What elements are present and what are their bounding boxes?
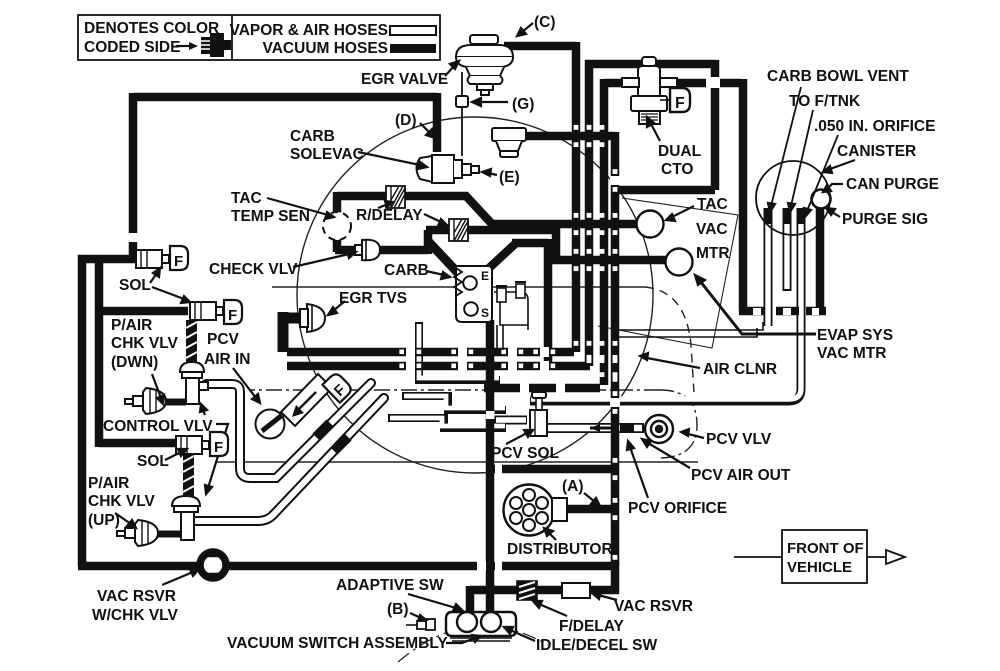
SOL 1 fitting (136, 250, 169, 268)
wire: main carb vertical (486, 320, 495, 612)
wire: dual cto right loop vertical (711, 60, 720, 190)
(G) fitting (456, 96, 468, 107)
F tag pcv air in (322, 372, 353, 403)
svg-text:F: F (174, 253, 183, 270)
wire: y83 line left of cto (604, 79, 630, 88)
svg-text:DENOTES COLOR: DENOTES COLOR (84, 20, 219, 37)
SOL 2 fitting (190, 302, 223, 320)
svg-text:(DWN): (DWN) (111, 354, 158, 371)
wire: distributor link (565, 505, 613, 514)
wire: bottom main line (78, 562, 613, 571)
legend vapor swatch (390, 26, 436, 35)
wire: top frame horizontal (133, 93, 437, 102)
arrow carb (426, 271, 444, 275)
arrow pcv vlv (688, 434, 704, 438)
F/DELAY component (517, 581, 537, 600)
wire: r/delay1 top line (337, 192, 388, 201)
wire: egr c line (504, 42, 576, 51)
p/air chk vlv up dome (117, 520, 158, 546)
svg-text:CHECK VLV: CHECK VLV (209, 261, 298, 278)
wire: purge foot segment 3 (806, 307, 826, 316)
svg-text:(B): (B) (387, 601, 409, 618)
svg-text:PURGE SIG: PURGE SIG (842, 211, 928, 228)
legend connector icon (201, 33, 231, 57)
svg-text:FRONT OF: FRONT OF (787, 540, 864, 557)
connector gap left frame (128, 233, 138, 242)
carburetor body (454, 266, 492, 322)
svg-text:F: F (228, 307, 237, 324)
svg-text:VAC MTR: VAC MTR (817, 345, 886, 362)
wire: second left vertical (95, 259, 104, 447)
svg-text:CARB: CARB (290, 128, 335, 145)
arrow r/delay 2 (424, 214, 441, 222)
svg-text:(G): (G) (512, 96, 534, 113)
control valve upper (180, 362, 208, 404)
F tag sol1 (170, 246, 188, 270)
carb solevac (417, 155, 480, 183)
arrow pcv orifice (630, 447, 648, 498)
wire: (D) drop to solevac (433, 93, 442, 152)
arrow sol upper b (152, 287, 184, 299)
svg-text:CARB: CARB (384, 262, 429, 279)
svg-text:CANISTER: CANISTER (837, 143, 916, 160)
svg-text:PCV: PCV (207, 331, 240, 348)
connector gap bottom line at carb tee (477, 561, 486, 571)
svg-text:VACUUM HOSES: VACUUM HOSES (263, 40, 388, 57)
svg-text:(A): (A) (562, 478, 584, 495)
SOL 3 fitting (176, 436, 209, 454)
svg-text:P/AIR: P/AIR (111, 317, 152, 334)
wire: temp sen drop (333, 192, 342, 215)
svg-text:CHK VLV: CHK VLV (111, 335, 179, 352)
PCV SOL fitting (530, 392, 547, 436)
wire: check valve out (378, 230, 428, 254)
carb top fitting (492, 128, 526, 157)
svg-text:DUAL: DUAL (658, 143, 701, 160)
wire: tvs bar y366 (287, 362, 590, 371)
arrow (A) (584, 493, 595, 502)
svg-text:E: E (481, 269, 489, 283)
EGR valve (456, 35, 513, 95)
svg-text:PCV AIR OUT: PCV AIR OUT (691, 467, 791, 484)
svg-text:S: S (481, 306, 489, 320)
arrow distributor (549, 533, 556, 540)
svg-text:CONTROL VLV: CONTROL VLV (103, 418, 213, 435)
svg-text:MTR: MTR (696, 245, 730, 262)
wire: purge riser x748 (739, 79, 748, 311)
hose: canister orifice tube down and left (530, 208, 801, 401)
wire: carb V left diagonal (427, 240, 458, 273)
hose: diagonal vapor tube B (196, 398, 384, 521)
svg-text:CODED SIDE: CODED SIDE (84, 39, 180, 56)
svg-text:CAN PURGE: CAN PURGE (846, 176, 939, 193)
wire: egr tvs corner (279, 312, 303, 352)
arrow sol upper a (150, 273, 157, 283)
svg-text:PCV ORIFICE: PCV ORIFICE (628, 500, 727, 517)
arrow (G) (478, 101, 508, 103)
tilted bracket rectangle (598, 198, 738, 348)
arrow carb bowl vent (771, 87, 801, 206)
svg-text:TO F/TNK: TO F/TNK (789, 93, 861, 110)
wire: bundle2 top corner (585, 60, 716, 69)
svg-text:W/CHK VLV: W/CHK VLV (92, 607, 178, 624)
DUAL CTO valve (622, 57, 677, 124)
wire: bundle line 4 (611, 132, 620, 565)
vac rsvr w/chk vlv donut (200, 552, 226, 578)
EVAP SYS VAC MTR ball (666, 249, 693, 276)
wire: tvs bar y352 (287, 348, 574, 357)
arrow f/delay (539, 604, 567, 616)
EGR TVS dome (300, 304, 325, 332)
arrow adaptive sw (408, 594, 456, 608)
arrow canister (830, 160, 855, 169)
wire: sol1 header horizontal (78, 255, 136, 264)
svg-text:IDLE/DECEL SW: IDLE/DECEL SW (536, 637, 658, 654)
wire: y83 line right of cto (660, 79, 741, 88)
arrow temp sen (267, 198, 328, 215)
wire: up dome to valve stub (158, 531, 181, 538)
F tag dual cto (670, 88, 690, 112)
hose: canister carb bowl vent tube (764, 208, 773, 326)
wire: purge signal tube (816, 207, 825, 314)
svg-text:VAC: VAC (696, 221, 728, 238)
svg-text:PCV SOL: PCV SOL (491, 445, 559, 462)
svg-text:VEHICLE: VEHICLE (787, 559, 852, 576)
control valve lower (172, 496, 200, 540)
svg-text:ADAPTIVE SW: ADAPTIVE SW (336, 577, 444, 594)
arrow to f/tnk (791, 110, 813, 206)
wire: r/delay1 to tac line (404, 196, 637, 224)
svg-text:DISTRIBUTOR: DISTRIBUTOR (507, 541, 613, 558)
hose: PCV tube right with orifice (546, 424, 644, 432)
svg-text:F/DELAY: F/DELAY (559, 618, 625, 635)
air cleaner circle outline (297, 117, 653, 473)
arrow dual cto (650, 122, 660, 141)
arrow (C) (522, 23, 533, 32)
arrow vac switch assembly (446, 638, 475, 643)
svg-text:TEMP SEN: TEMP SEN (231, 208, 310, 225)
TAC VAC MTR ball (637, 211, 664, 238)
connector sockets on hose bundle (574, 125, 579, 130)
svg-text:TAC: TAC (231, 190, 262, 207)
arrow check vlv (293, 254, 349, 267)
legend box (78, 15, 440, 60)
arrow inside PCV tube (590, 427, 612, 430)
svg-text:VAC RSVR: VAC RSVR (97, 588, 176, 605)
legend text right (230, 22, 388, 57)
arrow (E) (488, 173, 497, 175)
svg-text:CTO: CTO (661, 161, 693, 178)
R/delay 2 (449, 219, 468, 241)
R/delay 1 (386, 186, 405, 208)
arrow (D) (420, 123, 431, 134)
wire: bundle line 1 (572, 42, 581, 352)
PCV valve rings (645, 415, 673, 443)
arrow sol lower (165, 452, 181, 460)
wire: purge foot segment 1 (739, 307, 764, 316)
arrow idle/decel (510, 630, 535, 641)
wire: bundle line 2 (585, 60, 594, 366)
arrow purge sig (832, 212, 840, 217)
canister circle (756, 161, 830, 235)
svg-text:PCV VLV: PCV VLV (706, 431, 772, 448)
wire: sol3 branch (99, 439, 176, 448)
arrow carb solevac (358, 152, 420, 165)
wire: distributor top line (494, 465, 613, 474)
svg-text:SOL: SOL (137, 453, 169, 470)
p/air chk vlv dwn dome (125, 388, 166, 414)
wire: evap thin pair lines (618, 322, 763, 337)
svg-text:(C): (C) (534, 14, 556, 31)
svg-text:R/DELAY: R/DELAY (356, 207, 423, 224)
can purge port (812, 190, 831, 209)
valve cover chain line (250, 389, 660, 391)
svg-text:EGR TVS: EGR TVS (339, 290, 407, 307)
svg-text:(UP): (UP) (88, 512, 120, 529)
arrow orifice leader (807, 135, 838, 211)
arrow air clnr (647, 358, 700, 368)
arrow p/air up (115, 513, 131, 524)
VAC RSVR component (562, 583, 590, 598)
arrow p/air dwn (152, 374, 161, 398)
distributor (504, 485, 568, 536)
wire: purge foot segment 2 (776, 307, 799, 316)
svg-text:P/AIR: P/AIR (88, 475, 129, 492)
hatched hose lower (183, 454, 194, 496)
wire: dual cto bottom link (611, 186, 715, 195)
wire: temp sen lower drop (335, 238, 358, 252)
hose: staircase tube 2 (402, 396, 506, 410)
wire: (G) thin line (461, 72, 463, 156)
arrow egr valve (445, 65, 455, 76)
F tag sol3 (210, 432, 228, 456)
wire: carb fitting line y136 (524, 132, 615, 141)
arrow pcv sol (506, 433, 527, 444)
svg-text:AIR IN: AIR IN (204, 351, 251, 368)
legend vacuum swatch (390, 44, 436, 53)
vacuum switch assembly (406, 612, 516, 641)
svg-text:F: F (214, 439, 223, 456)
hatched hose upper (186, 320, 197, 364)
wire: vac rsvr f/delay line (470, 586, 619, 595)
wire: dwn dome to valve stub (166, 399, 186, 406)
connector gaps on tvs bars (406, 347, 415, 357)
wire: bottom right corner down (611, 561, 620, 594)
arrow pcv air out (648, 443, 690, 468)
hose: staircase tube 1 (419, 322, 500, 380)
wire: bar y388 (484, 384, 600, 393)
PCV air in tube (281, 374, 332, 426)
connector squares canister feet (753, 308, 761, 315)
arrow vac rsvr2 (598, 595, 617, 600)
wire: sol2 branch (99, 307, 188, 316)
legend text left (84, 20, 219, 56)
svg-text:(D): (D) (395, 112, 417, 129)
front of vehicle box (734, 530, 905, 583)
leader control vlv (208, 424, 228, 488)
TAC TEMP SEN dashed circle (323, 212, 351, 240)
connector gaps distributor frame (495, 463, 502, 474)
arrow control vlv tip (203, 410, 205, 415)
wire: far left vertical (78, 255, 87, 566)
svg-text:AIR CLNR: AIR CLNR (703, 361, 777, 378)
arrow (B) (410, 613, 421, 618)
arrow r/delay 1 (378, 204, 388, 208)
svg-text:EGR VALVE: EGR VALVE (361, 71, 448, 88)
svg-text:SOL: SOL (119, 277, 151, 294)
legend arrow (176, 45, 190, 47)
arrow tac vac mtr (672, 206, 694, 217)
hose: diagonal vapor tube A (206, 383, 371, 478)
svg-text:CHK VLV: CHK VLV (88, 493, 156, 510)
arrow vac rsvr w/chk (162, 572, 193, 585)
carb vacuum taps plumbing (494, 282, 528, 350)
arrow can purge (828, 184, 843, 188)
svg-text:VAC RSVR: VAC RSVR (614, 598, 693, 615)
wire: carb V right diagonal (488, 239, 548, 368)
PCV air in circle (256, 410, 287, 439)
svg-text:(E): (E) (499, 169, 520, 186)
arrow egr tvs (333, 301, 345, 311)
svg-text:SOLEVAC: SOLEVAC (290, 146, 364, 163)
wire: assembly left port (466, 586, 475, 612)
hose: canister to fuel tank tube (783, 208, 792, 291)
check valve (355, 240, 380, 261)
svg-text:EVAP SYS: EVAP SYS (817, 327, 893, 344)
connector gap dual cto line (706, 77, 720, 88)
svg-text:F: F (675, 95, 685, 112)
arrow evap sys (700, 281, 816, 334)
wire: r/delay2 line (426, 226, 666, 260)
wire: left frame vertical (129, 93, 138, 259)
arrow control vlv head (205, 485, 212, 494)
svg-text:VACUUM SWITCH ASSEMBLY: VACUUM SWITCH ASSEMBLY (227, 635, 448, 652)
air cleaner base rounded rect (272, 286, 645, 288)
svg-text:.050 IN. ORIFICE: .050 IN. ORIFICE (814, 118, 935, 135)
svg-text:VAPOR & AIR HOSES: VAPOR & AIR HOSES (230, 22, 388, 39)
F tag sol2 (224, 300, 242, 324)
svg-text:CARB BOWL VENT: CARB BOWL VENT (767, 68, 909, 85)
wire: bundle line 3 (600, 79, 609, 385)
hose: PCV suction tube left (494, 416, 527, 425)
dashed arc near distributor (398, 626, 548, 662)
svg-text:TAC: TAC (697, 196, 728, 213)
arrow pcv air in (233, 368, 256, 398)
hose: staircase tube 3 (388, 418, 506, 428)
